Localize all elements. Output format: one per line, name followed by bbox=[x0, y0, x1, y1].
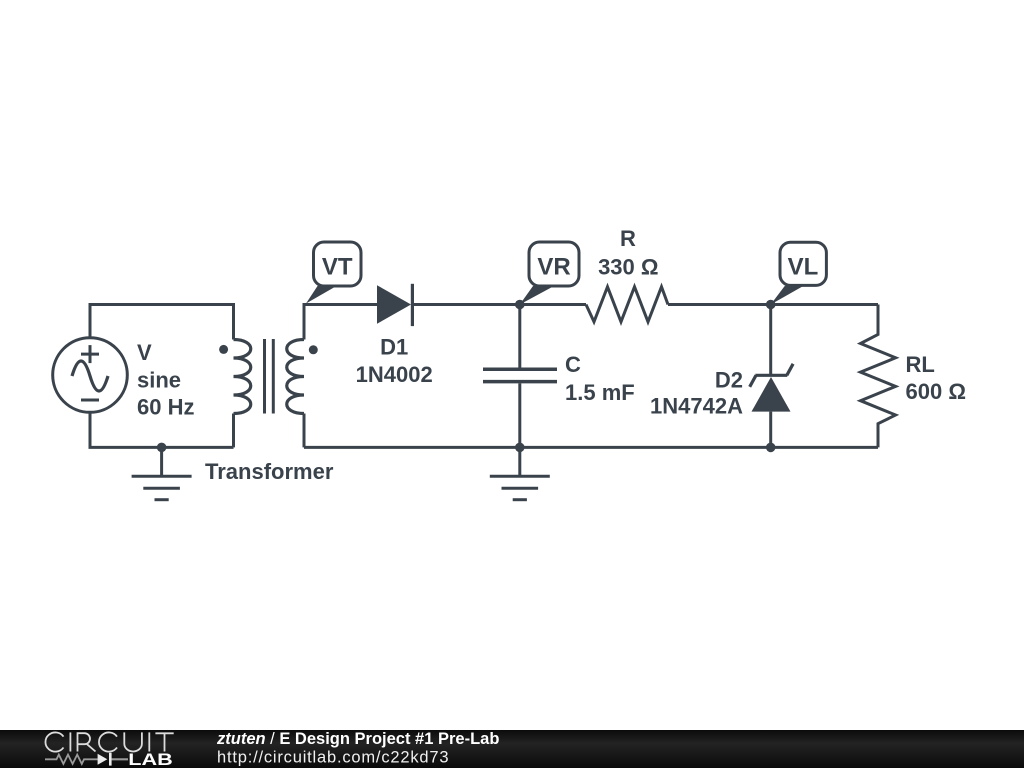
node VR label bbox=[520, 242, 579, 305]
svg-text:1.5 mF: 1.5 mF bbox=[565, 380, 635, 405]
voltage source V1 bbox=[53, 338, 128, 413]
label D1 1N4002 bbox=[356, 335, 433, 388]
svg-text:V: V bbox=[137, 340, 152, 365]
footer bar bbox=[0, 730, 1024, 768]
transformer T1 secondary coil bbox=[287, 340, 304, 414]
svg-text:VT: VT bbox=[322, 254, 353, 281]
svg-text:D1: D1 bbox=[380, 335, 408, 360]
junction dot VR bbox=[515, 300, 525, 310]
wire top left loop bbox=[90, 305, 234, 340]
label C 1.5 mF bbox=[565, 352, 635, 405]
junction dot VL bbox=[766, 300, 776, 310]
svg-text:1N4002: 1N4002 bbox=[356, 362, 433, 387]
wire D1 to R through node VR bbox=[412, 303, 586, 306]
svg-text:1N4742A: 1N4742A bbox=[650, 394, 743, 419]
wire R to RL through node VL bbox=[668, 303, 878, 306]
svg-text:VR: VR bbox=[537, 254, 570, 281]
diode D1 bbox=[377, 284, 412, 326]
secondary bottom stem bbox=[303, 414, 306, 448]
label D2 1N4742A bbox=[650, 368, 743, 419]
wire bottom left loop bbox=[90, 413, 234, 448]
wire bottom right loop bbox=[304, 446, 878, 449]
svg-text:60 Hz: 60 Hz bbox=[137, 395, 194, 420]
svg-text:Transformer: Transformer bbox=[205, 459, 334, 484]
label R 330 ohm bbox=[598, 226, 658, 280]
junction dot ground-left bbox=[157, 443, 167, 453]
wire secondary top to D1 bbox=[304, 305, 377, 340]
svg-text:VL: VL bbox=[788, 254, 819, 281]
node VL label bbox=[771, 242, 827, 304]
svg-text:600 Ω: 600 Ω bbox=[906, 379, 966, 404]
svg-text:C: C bbox=[565, 352, 581, 377]
logo CIRCUIT text bbox=[45, 732, 173, 751]
capacitor C bbox=[483, 305, 557, 448]
transformer phase dot primary bbox=[219, 345, 228, 354]
transformer T1 primary coil bbox=[234, 340, 251, 414]
svg-text:sine: sine bbox=[137, 367, 181, 392]
resistor RL bbox=[861, 305, 896, 448]
svg-text:D2: D2 bbox=[715, 368, 743, 393]
transformer core bbox=[265, 339, 274, 414]
junction dot D2 bottom bbox=[766, 443, 776, 453]
svg-text:ztuten / E Design Project #1 P: ztuten / E Design Project #1 Pre-Lab bbox=[216, 730, 499, 748]
svg-text:R: R bbox=[620, 226, 636, 251]
svg-text:RL: RL bbox=[906, 352, 935, 377]
ground GND2 bbox=[490, 447, 550, 499]
label RL 600 ohm bbox=[906, 352, 966, 404]
junction dot cap bottom bbox=[515, 443, 525, 453]
transformer phase dot secondary bbox=[309, 345, 318, 354]
svg-text:LAB: LAB bbox=[128, 750, 173, 768]
label V sine 60 Hz bbox=[137, 340, 194, 420]
logo resistor-diode glyph bbox=[45, 753, 128, 766]
ground GND1 bbox=[132, 447, 192, 499]
resistor R bbox=[586, 287, 668, 322]
svg-text:http://circuitlab.com/c22kd73: http://circuitlab.com/c22kd73 bbox=[217, 749, 449, 767]
svg-text:330 Ω: 330 Ω bbox=[598, 255, 658, 280]
node VT label bbox=[306, 242, 361, 304]
zener diode D2 bbox=[750, 305, 793, 448]
